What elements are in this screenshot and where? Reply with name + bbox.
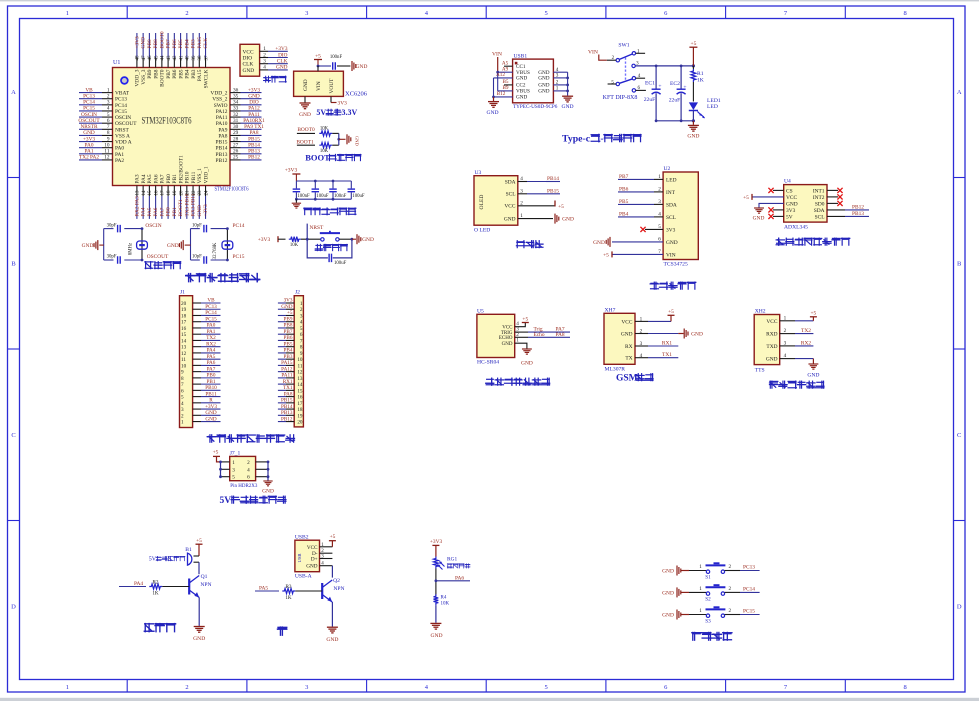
wire J7 right bus to ground — [267, 461, 270, 481]
svg-text:3V3: 3V3 — [666, 227, 676, 233]
svg-text:TX1: TX1 — [662, 352, 672, 358]
svg-text:GND: GND — [193, 636, 205, 642]
svg-text:+5: +5 — [330, 534, 336, 540]
svg-text:9: 9 — [300, 351, 303, 357]
svg-text:43: 43 — [167, 55, 172, 61]
svg-text:GND: GND — [303, 79, 309, 91]
mcu U1 STM32F103C8T6 — [113, 60, 249, 193]
svg-text:1K: 1K — [152, 591, 159, 597]
svg-text:6: 6 — [247, 475, 250, 481]
svg-text:PC15: PC15 — [115, 109, 127, 115]
sensor U2 pin 6 GND — [593, 237, 678, 247]
svg-text:2: 2 — [263, 52, 266, 58]
svg-text:10pF: 10pF — [192, 223, 202, 228]
mcu U1 pin 22 PB11 net RX3 PB11 — [191, 171, 197, 218]
connector J2 pin 18 net PB14 — [278, 404, 303, 413]
svg-text:2: 2 — [520, 200, 523, 206]
svg-text:VDD_2: VDD_2 — [210, 91, 227, 97]
svg-text:PA1: PA1 — [85, 149, 94, 155]
sensor U4 pin SCL to PB13 — [815, 211, 869, 221]
svg-text:13: 13 — [297, 376, 303, 382]
svg-text:RG1: RG1 — [447, 557, 457, 563]
mcu U1 pin 15 PA5 net PA5 — [147, 174, 153, 219]
svg-text:PC15: PC15 — [743, 609, 755, 615]
connector J2 pin 6 net PB7 — [278, 329, 303, 338]
svg-text:PA0: PA0 — [85, 142, 94, 148]
svg-text:4: 4 — [247, 467, 250, 473]
svg-text:TX: TX — [625, 356, 632, 362]
svg-text:RX2: RX2 — [801, 340, 811, 346]
mcu U1 pin 41 PB5 net PB5 — [178, 33, 184, 79]
mcu U1 pin 2 PC13 net PC13 — [79, 93, 127, 102]
module U5 pin GND — [502, 338, 533, 367]
title independent keys — [692, 632, 732, 640]
svg-text:PB13: PB13 — [248, 149, 260, 155]
svg-text:GND: GND — [276, 65, 288, 71]
svg-text:PA4: PA4 — [134, 581, 143, 587]
svg-text:NPN: NPN — [200, 582, 211, 588]
svg-text:1: 1 — [520, 213, 523, 219]
svg-text:VCC: VCC — [243, 49, 254, 55]
connector J1 pin 18 net PC14 — [181, 310, 221, 319]
svg-text:9: 9 — [107, 136, 110, 142]
svg-text:PA5: PA5 — [259, 586, 268, 592]
svg-text:12: 12 — [181, 351, 187, 357]
display U3 pin SDA to PB14 — [505, 176, 560, 185]
svg-text:PB6: PB6 — [172, 39, 178, 48]
svg-text:TX2: TX2 — [801, 328, 811, 334]
svg-text:10: 10 — [297, 357, 303, 363]
sensor U2 pin 4 SCL — [618, 211, 676, 221]
svg-text:PB12: PB12 — [852, 204, 864, 210]
svg-text:24: 24 — [204, 190, 209, 196]
svg-text:11: 11 — [104, 149, 109, 155]
svg-text:VSS_2: VSS_2 — [212, 97, 228, 103]
svg-text:GND: GND — [516, 95, 527, 101]
svg-text:PB5: PB5 — [178, 39, 184, 48]
svg-text:PB1: PB1 — [207, 379, 216, 385]
mcu U1 pin 8 VSS A net GND — [79, 130, 130, 139]
svg-text:PA5: PA5 — [147, 174, 153, 183]
svg-text:SDA: SDA — [814, 208, 825, 214]
svg-text:GND: GND — [299, 112, 311, 118]
svg-text:GND: GND — [687, 134, 699, 140]
svg-text:10K: 10K — [320, 127, 329, 132]
wire J7 left bus — [219, 461, 222, 479]
switch SW1 — [603, 43, 646, 102]
ground for crystal Y1 — [82, 240, 98, 250]
svg-text:B1: B1 — [185, 547, 192, 553]
svg-text:U4: U4 — [784, 179, 791, 185]
svg-text:PB12: PB12 — [216, 158, 228, 164]
svg-text:BOOT0: BOOT0 — [160, 69, 166, 87]
svg-text:6: 6 — [107, 118, 110, 124]
module XH7 pin TX to TX1 — [625, 352, 678, 362]
svg-text:36: 36 — [233, 87, 239, 93]
svg-text:PB2/BOOT1: PB2/BOOT1 — [178, 155, 184, 183]
svg-text:BOOT: BOOT — [305, 153, 330, 163]
svg-text:14: 14 — [181, 338, 187, 344]
svg-text:18: 18 — [167, 190, 172, 196]
svg-text:BOOT1: BOOT1 — [178, 199, 184, 216]
svg-text:A: A — [11, 89, 16, 96]
svg-text:A5: A5 — [502, 60, 509, 66]
mcu U1 pin 7 NRST net NRSTR — [79, 124, 129, 133]
resistor R1 1K — [691, 66, 704, 102]
power +5 rail — [689, 41, 697, 66]
svg-text:GND: GND — [281, 304, 292, 310]
mcu U1 pin 24 VDD_1 net +3V3 — [203, 166, 209, 219]
capacitor 100nF at regulator input — [330, 55, 351, 70]
svg-text:VCC: VCC — [621, 319, 632, 325]
svg-text:XH7: XH7 — [605, 307, 616, 313]
svg-text:TXD: TXD — [766, 344, 777, 350]
ground for lamp — [326, 627, 338, 643]
svg-text:25: 25 — [233, 155, 239, 161]
connector J2 pin 5 net PB8 — [278, 323, 303, 332]
svg-text:16: 16 — [154, 190, 159, 196]
svg-text:1: 1 — [699, 564, 702, 570]
svg-text:PA12: PA12 — [281, 366, 293, 372]
svg-text:TCS34725: TCS34725 — [664, 262, 688, 268]
svg-text:PB1: PB1 — [172, 207, 178, 216]
svg-text:PB13: PB13 — [281, 410, 293, 416]
connector J2 pin 2 net GND — [278, 304, 303, 313]
svg-text:2: 2 — [729, 608, 732, 614]
svg-text:PA8: PA8 — [250, 130, 259, 136]
svg-text:3.3V: 3.3V — [342, 108, 358, 117]
svg-text:PB13: PB13 — [852, 211, 864, 217]
module U5 pin TRIG to PA7 — [501, 327, 570, 336]
svg-text:1: 1 — [556, 86, 559, 92]
svg-text:VSS A: VSS A — [115, 133, 130, 139]
mcu U1 pin 46 PB9 net PB9 — [147, 33, 153, 79]
svg-text:PA0: PA0 — [115, 146, 124, 152]
mcu U1 pin 37 SWCLK net CLK — [203, 33, 209, 88]
svg-text:19: 19 — [181, 307, 187, 313]
svg-text:+3V3: +3V3 — [275, 46, 287, 52]
mcu U1 pin 10 PA0 net PA0 — [79, 142, 124, 151]
svg-text:GND: GND — [807, 373, 819, 379]
svg-text:13: 13 — [181, 345, 187, 351]
svg-text:+: + — [658, 84, 661, 90]
svg-text:1K: 1K — [697, 78, 704, 84]
svg-text:CLK: CLK — [243, 62, 254, 68]
svg-text:PB12: PB12 — [248, 155, 260, 161]
wire Q1 emitter to ground — [198, 598, 200, 626]
svg-text:5: 5 — [232, 475, 235, 481]
svg-text:PB8: PB8 — [153, 69, 159, 79]
connector J1 pin 17 net PC15 — [181, 316, 221, 325]
connector J1 pin 19 net PC13 — [181, 304, 221, 313]
svg-text:28: 28 — [233, 136, 239, 142]
svg-text:NRST: NRST — [310, 225, 324, 231]
sensor U4 pin 5V no connect — [768, 214, 792, 221]
svg-text:18: 18 — [297, 407, 303, 413]
svg-text:OSCIN: OSCIN — [115, 115, 131, 121]
resistor 10K on BOOT1 — [297, 143, 339, 155]
svg-text:PA10RX1: PA10RX1 — [243, 118, 265, 124]
svg-text:1: 1 — [232, 460, 235, 466]
svg-text:PC14: PC14 — [83, 100, 95, 106]
svg-text:PB10: PB10 — [205, 385, 217, 391]
svg-text:11: 11 — [298, 363, 303, 369]
svg-text:PC14: PC14 — [205, 310, 217, 316]
mcu U1 pin 40 PB4 net PB4 — [184, 33, 190, 79]
svg-text:3V3: 3V3 — [786, 208, 796, 214]
pin A12 GND wire — [494, 72, 513, 97]
svg-text:8: 8 — [904, 684, 907, 691]
pin B9 label — [502, 85, 508, 91]
svg-text:Echo: Echo — [533, 332, 544, 338]
svg-text:3V3: 3V3 — [284, 298, 293, 304]
svg-text:TX2 PA2: TX2 PA2 — [79, 155, 99, 161]
connector J2 20-pin header — [294, 290, 303, 427]
svg-text:PB7: PB7 — [166, 39, 172, 48]
resistor R4 10K — [434, 594, 450, 606]
svg-text:VIN: VIN — [666, 252, 676, 258]
svg-text:PA3: PA3 — [135, 174, 141, 183]
mcu U1 pin 29 PA8 net PA8 — [218, 130, 261, 139]
svg-text:+: + — [683, 85, 686, 91]
mcu U1 pin 3 PC14 net PC14 — [79, 100, 127, 109]
svg-text:PC15: PC15 — [205, 316, 217, 322]
svg-text:GND: GND — [786, 201, 798, 207]
svg-text:RX3 PB11: RX3 PB11 — [191, 193, 197, 216]
svg-text:GND: GND — [306, 564, 317, 570]
sensor U4 pin 3V3 no connect — [768, 207, 795, 214]
svg-text:PA10: PA10 — [216, 121, 228, 127]
svg-text:GND: GND — [662, 590, 674, 596]
svg-text:SDA: SDA — [666, 202, 677, 208]
connector J2 pin 16 net PA8 — [278, 391, 303, 400]
net NRST — [306, 224, 324, 241]
module XH7 pin VCC to +5 — [621, 309, 674, 325]
svg-text:GND: GND — [753, 216, 765, 222]
svg-text:PB5: PB5 — [619, 199, 629, 205]
title lamp — [278, 627, 287, 635]
svg-text:C: C — [11, 432, 15, 439]
svg-text:VB: VB — [85, 87, 93, 93]
svg-text:PA0: PA0 — [207, 323, 216, 329]
svg-text:3: 3 — [107, 100, 110, 106]
svg-text:B12: B12 — [497, 91, 506, 97]
svg-text:30: 30 — [233, 124, 239, 130]
svg-text:+5: +5 — [603, 252, 609, 258]
resistor R2 1K — [149, 579, 189, 596]
svg-text:34: 34 — [233, 100, 239, 106]
connector J2 pin 17 net PB15 — [278, 398, 303, 407]
capacitor 100uF filter — [312, 181, 329, 199]
ground for filter caps — [292, 199, 301, 208]
svg-text:GND: GND — [521, 361, 533, 367]
svg-text:GND: GND — [197, 205, 203, 217]
svg-text:PA5: PA5 — [147, 207, 153, 216]
svg-text:46: 46 — [148, 55, 153, 61]
svg-text:+5: +5 — [690, 41, 696, 47]
svg-text:5V: 5V — [149, 557, 157, 563]
power +3V3 for photoresistor — [430, 539, 443, 556]
svg-text:37: 37 — [204, 55, 209, 61]
svg-text:39: 39 — [192, 55, 197, 61]
svg-text:10K: 10K — [290, 243, 299, 248]
svg-text:STM32F103C8T6: STM32F103C8T6 — [215, 187, 249, 193]
sensor U2 pin 7 VIN — [603, 249, 676, 258]
svg-text:PA15: PA15 — [197, 37, 203, 49]
svg-text:+3V3: +3V3 — [203, 204, 209, 216]
svg-text:PB1: PB1 — [172, 174, 178, 184]
svg-text:PA11: PA11 — [216, 115, 228, 121]
svg-text:PB9: PB9 — [147, 39, 153, 48]
mcu U1 pin 5 OSCIN net OSCIN — [79, 112, 131, 121]
svg-text:PA9: PA9 — [218, 127, 227, 133]
svg-text:RX2 PA3: RX2 PA3 — [135, 196, 141, 217]
svg-text:PB7: PB7 — [619, 174, 629, 180]
svg-text:XC6206: XC6206 — [345, 91, 368, 98]
svg-text:100uF: 100uF — [352, 194, 365, 199]
svg-text:XH2: XH2 — [755, 309, 766, 315]
svg-text:R2: R2 — [152, 579, 158, 585]
svg-text:PB11: PB11 — [205, 391, 217, 397]
power +5 for buzzer — [196, 538, 203, 556]
svg-text:S2: S2 — [705, 596, 711, 602]
sensor U2 pin 5 3V3 — [640, 224, 675, 233]
svg-text:PC15: PC15 — [233, 254, 245, 260]
svg-text:DIO: DIO — [243, 56, 253, 62]
svg-text:B5: B5 — [502, 79, 508, 85]
sensor U4 pin SDA to PB12 — [814, 204, 869, 214]
svg-text:3: 3 — [232, 467, 235, 473]
svg-text:5V: 5V — [786, 214, 793, 220]
svg-text:RX1: RX1 — [283, 379, 293, 385]
svg-text:40: 40 — [186, 55, 191, 61]
push button S3 — [689, 607, 732, 624]
svg-text:CLK: CLK — [277, 59, 288, 65]
svg-text:GND: GND — [662, 569, 674, 575]
mcu U1 pin 44 BOOT0 net BOOT0 — [159, 31, 165, 87]
sensor U2 pin 3 SDA — [618, 199, 677, 209]
svg-text:OSCOUT: OSCOUT — [115, 121, 137, 127]
svg-text:10: 10 — [104, 142, 110, 148]
capacitor 100uF filter — [348, 181, 365, 199]
svg-text:10: 10 — [181, 363, 187, 369]
title 5V external backup power — [219, 496, 286, 506]
svg-text:PA11: PA11 — [248, 112, 260, 118]
connector J1 pin 11 net PA5 — [181, 354, 221, 363]
svg-text:4: 4 — [263, 65, 266, 71]
capacitor EC2 22uF — [669, 66, 687, 121]
svg-text:+5: +5 — [743, 195, 749, 201]
svg-text:+3V3: +3V3 — [135, 36, 141, 48]
net VIN at USB1 — [492, 52, 502, 73]
svg-text:8: 8 — [181, 376, 184, 382]
svg-text:42: 42 — [173, 55, 178, 61]
svg-text:PC13: PC13 — [115, 97, 127, 103]
svg-text:7: 7 — [181, 382, 184, 388]
svg-text:LED: LED — [707, 104, 718, 110]
net 3V3 regulator output — [331, 96, 347, 106]
module U5 HC-SR04 — [477, 308, 515, 365]
connector J1 pin 4 net R — [181, 398, 221, 407]
sensor U4 pin VCC to +5 — [743, 194, 797, 201]
svg-text:GND: GND — [205, 410, 216, 416]
svg-text:C: C — [957, 432, 961, 439]
svg-text:3V3: 3V3 — [338, 101, 348, 107]
wire Q2 emitter to ground — [331, 602, 333, 627]
svg-text:+3V3: +3V3 — [258, 237, 271, 243]
wire +5 node to cap — [317, 65, 331, 72]
title voice output module — [769, 381, 823, 388]
svg-text:PB7: PB7 — [284, 329, 293, 335]
title BOOT setting circuit — [305, 153, 361, 163]
svg-text:PA7: PA7 — [207, 366, 216, 372]
svg-text:100nF: 100nF — [330, 55, 343, 60]
mcu U1 pin 12 PA2 net TX2 PA2 — [79, 155, 124, 164]
svg-text:NRST: NRST — [115, 127, 129, 133]
svg-text:26: 26 — [233, 149, 239, 155]
svg-text:EC2: EC2 — [670, 81, 680, 87]
ground for photoresistor — [430, 623, 442, 639]
svg-text:GND: GND — [141, 37, 147, 49]
mcu U1 pin 9 VDD A net +3V3 — [79, 136, 132, 145]
svg-text:6: 6 — [300, 332, 303, 338]
svg-text:2: 2 — [729, 564, 732, 570]
svg-text:NRSTR: NRSTR — [80, 124, 98, 130]
svg-text:45: 45 — [154, 55, 159, 61]
svg-text:PC15: PC15 — [83, 106, 95, 112]
svg-text:PB6: PB6 — [619, 186, 629, 192]
svg-text:PB8: PB8 — [284, 323, 293, 329]
svg-text:41: 41 — [179, 55, 184, 61]
svg-text:PA1: PA1 — [115, 152, 124, 158]
svg-text:OSCIN: OSCIN — [81, 112, 97, 118]
svg-text:35: 35 — [233, 93, 239, 99]
svg-text:GND: GND — [562, 217, 574, 223]
svg-text:HC-SR04: HC-SR04 — [477, 360, 499, 366]
title mcu pin breakout header — [207, 435, 294, 442]
svg-text:5: 5 — [107, 112, 110, 118]
svg-text:PB7: PB7 — [166, 69, 172, 79]
mcu U1 pin 34 SWIO net DIO — [214, 100, 262, 109]
svg-text:18: 18 — [181, 313, 187, 319]
svg-text:GND: GND — [593, 240, 605, 246]
svg-text:5V: 5V — [219, 496, 231, 506]
wire key S1 to PC13 — [725, 565, 760, 571]
svg-text:D+: D+ — [311, 557, 318, 563]
svg-text:SWIO: SWIO — [214, 103, 228, 109]
sensor U2 pin 2 INT — [618, 186, 676, 196]
svg-text:VIN: VIN — [588, 49, 598, 55]
svg-text:PC14: PC14 — [743, 586, 755, 592]
mcu U1 pin 16 PA6 net PA6 — [153, 174, 159, 219]
module U5 pin VCC to +5 — [502, 316, 529, 330]
connector J7_1 HDR2X3 — [221, 450, 269, 489]
module XH7 pin GND — [621, 329, 703, 339]
svg-text:PB14: PB14 — [216, 146, 228, 152]
svg-text:GND: GND — [516, 76, 527, 82]
svg-text:Pin HDR2X3: Pin HDR2X3 — [230, 484, 258, 489]
svg-text:5: 5 — [300, 326, 303, 332]
svg-text:VSS_1: VSS_1 — [197, 168, 203, 184]
wire key S2 to PC14 — [725, 586, 760, 592]
connector J1 pin 9 net PA7 — [181, 366, 221, 375]
svg-text:3: 3 — [263, 59, 266, 65]
mcu U1 pin 28 PB15 net PB15 — [216, 136, 262, 145]
svg-text:31: 31 — [233, 118, 239, 124]
sensor U2 pin 1 LED — [618, 174, 677, 184]
svg-text:PB15: PB15 — [216, 140, 228, 146]
svg-text:10K: 10K — [441, 602, 450, 607]
